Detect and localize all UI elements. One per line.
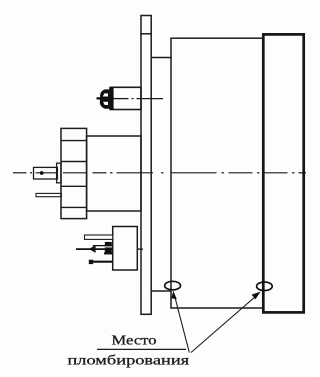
connector body [113, 227, 138, 271]
flange crossline [140, 33, 152, 35]
shaft hub [57, 163, 61, 183]
pin 4 end square [89, 260, 93, 264]
pin 2 upper lead [93, 245, 113, 247]
leader line left [175, 296, 190, 353]
connector pin 3 [104, 252, 113, 254]
seal eyelet right [257, 282, 273, 291]
pin 2 crimp wedge [89, 245, 96, 253]
switch shaft [34, 167, 58, 179]
main case body [171, 38, 263, 308]
locking pin under shaft [36, 193, 61, 196]
knurled knob [61, 128, 87, 218]
corrector screw head [97, 87, 114, 110]
spacer ring bottom edge [151, 290, 172, 292]
knob ridge line 4 [61, 206, 87, 208]
rear cover [263, 34, 303, 312]
switch housing cylinder [87, 136, 141, 211]
pin 2 axis tick through flange [137, 248, 143, 250]
connector pin 1 (tube) [85, 235, 113, 239]
connector pin 2 rod [76, 248, 113, 250]
shaft dot [40, 171, 44, 175]
leader arrowhead left [171, 291, 177, 300]
mounting flange plate [141, 16, 151, 315]
knob ridge line 2 [61, 161, 87, 163]
svg-text:Место: Место [111, 334, 156, 348]
pin 2 collar lower [105, 247, 112, 254]
seal eyelet left [165, 281, 181, 290]
leader arrowhead right [252, 292, 261, 300]
svg-text:пломбирования: пломбирования [67, 354, 189, 368]
knob ridge line 3 [61, 185, 87, 187]
spacer ring top edge [151, 57, 172, 59]
leader line right [191, 296, 256, 353]
corrector screw axis line [114, 98, 129, 100]
leader shelf underline [97, 348, 186, 350]
main centerline [13, 172, 306, 174]
connector pin 4 [89, 261, 113, 263]
corrector screw boss [111, 87, 142, 109]
knob ridge line 1 [61, 140, 87, 142]
pin 2 collar upper [105, 242, 112, 246]
